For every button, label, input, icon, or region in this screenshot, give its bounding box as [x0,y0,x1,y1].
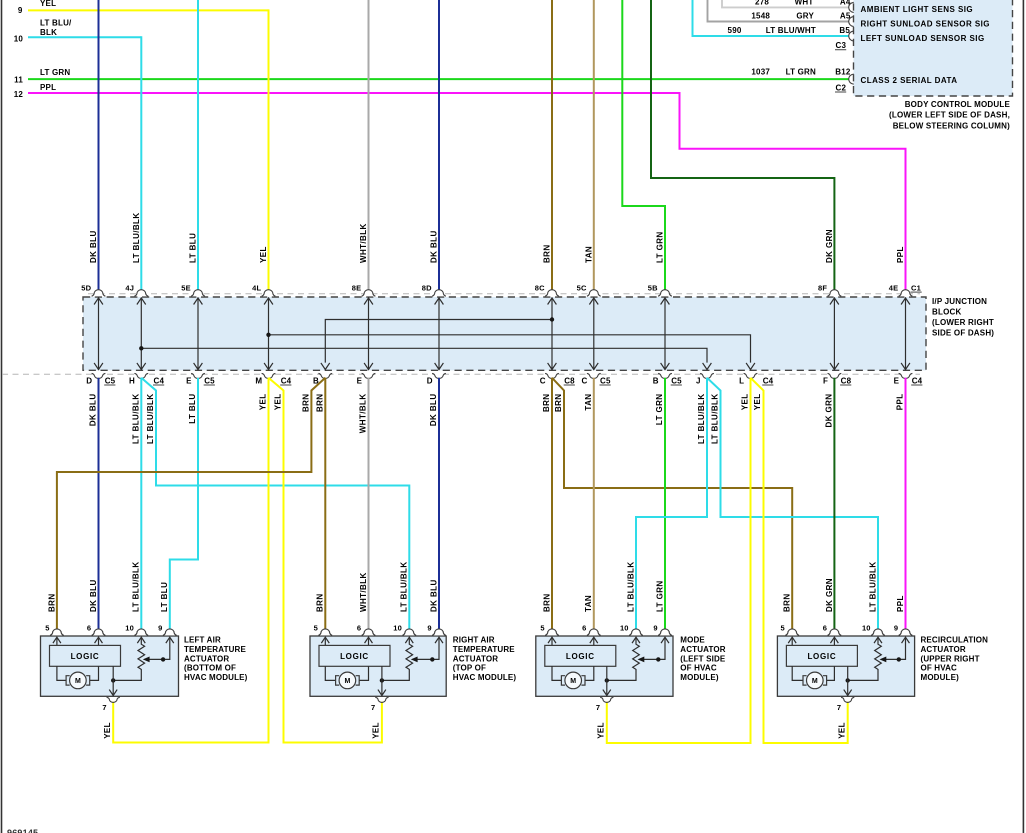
junction top pin 8C [545,290,559,297]
actuator U3 pin 9 [658,629,672,636]
actuator U3 pin 6 lead arrow [593,638,595,645]
svg-text:TAN: TAN [584,394,593,411]
wire 10 vertical LT BLU/BLK to 4J [140,36,142,291]
wire WHT to BCM A4 [722,0,849,7]
svg-text:C8: C8 [564,376,575,385]
junction top pin 8E [362,290,376,296]
svg-text:5E: 5E [181,283,191,292]
svg-text:LEFT AIR: LEFT AIR [184,636,221,645]
svg-text:TAN: TAN [584,595,593,612]
svg-text:5: 5 [45,624,49,633]
actuator U3 pin 7 [600,697,613,702]
svg-text:I/P JUNCTION: I/P JUNCTION [932,297,987,306]
actuator U2 motor M [339,672,356,689]
junction top pin 8F [828,290,842,297]
svg-text:C4: C4 [763,376,774,385]
wire WHT/BLK column 8E [368,0,370,291]
svg-text:LEFT SUNLOAD SENSOR SIG: LEFT SUNLOAD SENSOR SIG [861,34,985,43]
body control module box [854,0,1013,96]
svg-text:DK GRN: DK GRN [825,229,834,263]
svg-text:7: 7 [837,703,841,712]
svg-text:E: E [894,376,900,385]
svg-text:5B: 5B [648,283,658,292]
actuator U4 potentiometer [848,638,882,680]
svg-text:BRN: BRN [316,593,325,612]
junction bottom pin D [432,373,446,378]
svg-text:LT GRN: LT GRN [655,580,664,612]
svg-text:DK GRN: DK GRN [825,394,834,428]
svg-text:BRN: BRN [554,394,563,413]
svg-text:12: 12 [14,90,24,99]
svg-text:PPL: PPL [896,595,905,612]
svg-text:5: 5 [314,624,318,633]
svg-text:(LEFT SIDE: (LEFT SIDE [680,654,726,663]
svg-text:5C: 5C [577,283,587,292]
junction pass-through wire x=268.5 [268,298,270,370]
actuator U2 LOGIC box [319,645,390,666]
svg-text:C5: C5 [204,376,215,385]
actuator U1 motor M [70,672,87,689]
svg-text:6: 6 [87,624,91,633]
wire WHT/BLK E to act2 pin6 [368,378,370,631]
svg-text:LOGIC: LOGIC [71,652,100,661]
svg-text:C5: C5 [600,376,611,385]
junction top pin 4L [262,290,276,296]
svg-text:WHT/BLK: WHT/BLK [359,223,368,263]
junction top pin 4J [134,290,148,297]
BCM pin arc B12 [849,74,854,84]
wire 10 LT BLU/BLK from left edge [28,36,141,38]
svg-text:4L: 4L [252,283,261,292]
svg-text:8E: 8E [352,283,362,292]
svg-text:TEMPERATURE: TEMPERATURE [184,645,246,654]
svg-text:YEL: YEL [274,394,283,411]
actuator U3 wiper node dot [656,657,660,661]
junction top pin 5E [191,290,205,296]
actuator U2 common node dot [380,678,384,682]
junction pass-through wire x=98.5 [98,298,100,370]
junction bottom pin D C5 [92,373,106,378]
svg-text:PPL: PPL [896,394,905,411]
junction top pin 5D [92,290,106,297]
actuator U3 pin 5 [545,629,559,636]
svg-text:YEL: YEL [40,0,56,8]
wire DK GRN F to act4 pin6 [833,378,835,631]
svg-text:B: B [653,376,659,385]
actuator U1 motor leads [57,666,66,680]
svg-text:(LOWER LEFT SIDE OF DASH,: (LOWER LEFT SIDE OF DASH, [889,111,1010,120]
svg-text:C: C [540,376,546,385]
actuator U1 pin 10 [134,629,148,636]
svg-text:LT BLU/BLK: LT BLU/BLK [711,394,720,445]
svg-text:TEMPERATURE: TEMPERATURE [453,645,515,654]
svg-text:DK BLU: DK BLU [430,230,439,263]
svg-text:HVAC MODULE): HVAC MODULE) [453,673,517,682]
actuator U2 pin 5 [318,629,332,636]
svg-text:RIGHT SUNLOAD SENSOR SIG: RIGHT SUNLOAD SENSOR SIG [861,19,990,28]
junction node dot on 4J column [139,346,143,350]
svg-text:WHT: WHT [795,0,814,7]
svg-text:HVAC MODULE): HVAC MODULE) [184,673,248,682]
svg-text:CLASS 2 SERIAL DATA: CLASS 2 SERIAL DATA [861,76,958,85]
svg-text:YEL: YEL [838,722,847,739]
svg-text:ACTUATOR: ACTUATOR [453,654,498,663]
actuator U1 LOGIC box [50,645,121,666]
svg-text:LOGIC: LOGIC [807,652,836,661]
svg-text:LT GRN: LT GRN [655,394,664,426]
svg-text:M: M [570,678,576,685]
svg-text:OF HVAC: OF HVAC [680,664,717,673]
actuator U2 pin 7 lead [381,666,383,694]
junction bottom pin M C4 [262,373,276,378]
BCM pin arc A4 [849,2,854,12]
svg-text:LT GRN: LT GRN [40,68,70,77]
junction bus 4L to pin L [269,335,751,363]
junction pass-through wire x=368.5 [368,298,370,370]
wire GRY to BCM A5 [708,0,850,22]
svg-text:LT GRN: LT GRN [656,231,665,263]
svg-text:5: 5 [540,624,544,633]
actuator U2 box [310,636,446,696]
junction bottom pin J [700,373,714,378]
actuator U3 motor M [565,672,582,689]
BCM pin arc A5 [849,16,854,26]
actuator U2 pin 7 [375,697,388,702]
svg-text:(UPPER RIGHT: (UPPER RIGHT [921,654,980,663]
actuator U3 pin 7 lead [606,666,608,694]
junction top connector strip [88,293,920,295]
svg-text:8F: 8F [818,283,827,292]
svg-text:BRN: BRN [543,244,552,263]
svg-text:RECIRCULATION: RECIRCULATION [921,636,989,645]
actuator U3 box [536,636,673,696]
actuator U2 wiper node dot [430,657,434,661]
BCM pin arc B5 [849,31,854,41]
actuator U4 pin 7 lead [847,666,849,694]
wire BRN B split to act1 pin5 [57,378,325,631]
actuator U1 pin 6 lead arrow [98,638,100,645]
junction node dot on 4L column [266,333,270,337]
svg-text:DK BLU: DK BLU [429,579,438,612]
svg-text:SIDE OF DASH): SIDE OF DASH) [932,328,994,337]
svg-text:D: D [86,376,92,385]
junction pass-through wire x=198 [197,298,199,370]
svg-text:YEL: YEL [372,722,381,739]
svg-text:MODULE): MODULE) [680,673,719,682]
wire LT BLU/BLK J split to act4 pin10 [707,378,878,631]
svg-text:BRN: BRN [47,593,56,612]
I/P junction block box [83,297,926,370]
svg-text:7: 7 [371,703,375,712]
svg-text:M: M [344,678,350,685]
svg-text:PPL: PPL [40,83,56,92]
svg-text:LT BLU/BLK: LT BLU/BLK [132,394,141,445]
svg-text:BRN: BRN [302,394,311,413]
svg-text:M: M [255,376,262,385]
svg-text:C4: C4 [281,376,292,385]
junction bus 4J to pin J [141,348,707,362]
junction bottom pin F C8 [828,373,842,378]
wire LT BLU/BLK H to act1 pin10 [140,378,142,631]
actuator U1 pin 5 [50,629,64,635]
svg-text:H: H [129,376,135,385]
wire 9 YEL from left edge [28,9,269,11]
wire PPL E to act4 pin9 [905,378,907,631]
svg-text:LT BLU/BLK: LT BLU/BLK [400,561,409,612]
actuator U4 LOGIC box [786,645,857,666]
wire LT BLU E to act1 pin9 [170,378,198,631]
svg-text:DK GRN: DK GRN [825,578,834,612]
actuator U1 wiper node dot [161,657,165,661]
svg-text:9: 9 [158,624,162,633]
junction bus 8C to pin B [325,320,552,363]
actuator U3 pin 10 [629,629,643,636]
junction top pin 4E [899,290,913,297]
svg-text:M: M [75,678,81,685]
junction node dot on 8C column [550,317,554,321]
svg-text:LOGIC: LOGIC [566,652,595,661]
svg-text:4J: 4J [125,283,134,292]
svg-text:278: 278 [755,0,769,7]
svg-text:7: 7 [596,703,600,712]
actuator U4 common node dot [846,678,850,682]
svg-text:BRN: BRN [542,394,551,413]
junction bottom pin E C5 [191,373,205,378]
svg-text:C2: C2 [836,83,847,92]
junction bottom pin B C5 [658,373,672,378]
junction top pin 5C [587,290,601,297]
wire DK BLU column 8D [438,0,440,291]
svg-text:J: J [696,376,701,385]
actuator U1 potentiometer [113,638,144,680]
junction bottom pin C C5 [587,373,601,378]
actuator U4 box [777,636,914,696]
svg-text:(TOP OF: (TOP OF [453,664,486,673]
svg-text:6: 6 [357,624,361,633]
actuator U3 potentiometer [607,638,640,680]
actuator U2 pin 5 lead arrow [324,638,326,645]
svg-text:10: 10 [862,624,871,633]
svg-text:WHT/BLK: WHT/BLK [359,572,368,612]
actuator U3 pin 6 [587,629,601,636]
svg-text:BELOW STEERING COLUMN): BELOW STEERING COLUMN) [893,121,1010,130]
wire 11 LT GRN class 2 serial data to BCM B12 [28,78,849,80]
svg-text:4E: 4E [889,283,899,292]
svg-text:LT BLU/BLK: LT BLU/BLK [132,212,141,263]
svg-text:PPL: PPL [896,246,905,263]
junction pass-through wire x=665 [664,298,666,370]
svg-text:6: 6 [582,624,586,633]
actuator U2 pin 6 [362,629,376,635]
svg-text:C3: C3 [836,41,847,50]
svg-text:LT BLU/BLK: LT BLU/BLK [626,561,635,612]
actuator U3 wiper from pin 9 [644,638,666,659]
wire TAN column 5C [593,0,595,291]
svg-text:LOGIC: LOGIC [340,652,369,661]
junction pass-through wire x=593.8 [593,298,595,370]
svg-text:LT BLU/WHT: LT BLU/WHT [766,26,816,35]
actuator U3 common node dot [605,678,609,682]
page right border [1022,0,1024,833]
svg-text:C: C [582,376,588,385]
svg-text:BLOCK: BLOCK [932,307,961,316]
svg-text:LT BLU/BLK: LT BLU/BLK [146,394,155,445]
wire YEL L to act3 pin7 [607,378,751,743]
svg-text:(BOTTOM OF: (BOTTOM OF [184,664,236,673]
svg-text:YEL: YEL [259,394,268,411]
junction top pin 8D [432,290,446,296]
junction bottom pin L C4 [744,373,758,378]
actuator U2 motor leads [325,666,335,680]
svg-text:1037: 1037 [751,68,770,77]
actuator U4 wiper node dot [897,657,901,661]
actuator U3 LOGIC box [545,645,616,666]
svg-text:MODE: MODE [680,636,705,645]
wire DK BLU D to act1 pin6 [98,378,100,631]
svg-text:5: 5 [781,624,785,633]
actuator U3 pin 5 lead arrow [551,638,553,645]
svg-text:C8: C8 [841,376,852,385]
svg-text:7: 7 [102,703,106,712]
actuator U1 common node dot [111,678,115,682]
svg-text:YEL: YEL [753,394,762,411]
wire DK GRN elbow to 8F [651,0,834,291]
wire DK BLU column 5D [98,0,100,291]
wire 12 PPL from left edge [28,93,906,291]
svg-text:6: 6 [823,624,827,633]
svg-text:LT GRN: LT GRN [786,68,816,77]
junction bottom pin E [362,373,376,378]
svg-text:B12: B12 [835,68,851,77]
svg-text:1548: 1548 [751,12,770,21]
wire BRN column 8C [551,0,553,291]
svg-text:D: D [427,376,433,385]
svg-text:E: E [186,376,192,385]
svg-text:9: 9 [18,6,23,15]
svg-text:9: 9 [427,624,431,633]
svg-text:AMBIENT LIGHT SENS SIG: AMBIENT LIGHT SENS SIG [861,5,974,14]
svg-text:M: M [812,678,818,685]
junction pass-through wire x=439 [438,298,440,370]
actuator U1 pin 7 lead [112,666,114,694]
junction bottom pin E C4 [899,373,913,378]
actuator U4 pin 6 lead arrow [833,638,835,645]
wire TAN C to act3 pin6 [593,378,595,631]
wire BRN C to act3 pin5 [551,378,553,631]
wire LT GRN B to act3 pin9 [664,378,666,631]
actuator U4 pin 5 [785,629,799,636]
wire LT GRN elbow to 5B [622,0,665,291]
svg-text:LT BLU/BLK: LT BLU/BLK [697,394,706,445]
junction bottom pin C C8 [545,373,559,378]
svg-text:E: E [357,376,363,385]
junction pass-through wire x=141.3 [140,298,142,370]
svg-text:10: 10 [620,624,629,633]
page left border [1,0,3,833]
wire LT BLU column 5E [197,0,199,291]
svg-text:10: 10 [14,35,24,44]
svg-text:ACTUATOR: ACTUATOR [680,645,725,654]
wire BRN C split to act4 pin5 [552,378,792,631]
svg-text:LT BLU: LT BLU [189,233,198,263]
wire BRN B to act2 pin5 [324,378,326,631]
svg-text:L: L [739,376,744,385]
wire LT BLU/WHT to BCM B5 [693,0,850,36]
wire YEL L split to act4 pin7 [751,378,848,743]
svg-text:OF HVAC: OF HVAC [921,664,958,673]
svg-text:DK BLU: DK BLU [429,394,438,427]
svg-text:9: 9 [894,624,898,633]
svg-text:YEL: YEL [103,722,112,739]
svg-text:10: 10 [125,624,134,633]
wire DK BLU D to act2 pin9 [438,378,440,631]
svg-text:TAN: TAN [585,246,594,263]
actuator U4 pin 10 [871,629,885,636]
svg-text:10: 10 [393,624,402,633]
wire LT BLU/BLK J to act3 pin10 [636,378,707,631]
junction pass-through wire x=905.5 [905,298,907,370]
actuator U1 pin 6 [92,629,106,636]
svg-text:8D: 8D [422,283,432,292]
junction bottom connector strip [2,373,920,375]
actuator U1 pin 9 [163,629,177,636]
actuator U1 box [41,636,179,696]
actuator U4 motor M [807,672,824,689]
junction pass-through wire x=834.4 [833,298,835,370]
actuator U2 pin 6 lead arrow [368,638,370,645]
wire YEL M to act1 pin7 [113,378,268,743]
actuator U4 pin 6 [828,629,842,636]
svg-text:9: 9 [653,624,657,633]
svg-text:LT BLU: LT BLU [188,394,197,424]
svg-text:C4: C4 [154,376,165,385]
svg-text:11: 11 [14,76,23,85]
svg-text:GRY: GRY [796,12,814,21]
svg-text:ACTUATOR: ACTUATOR [184,654,229,663]
svg-text:YEL: YEL [741,394,750,411]
svg-text:969145: 969145 [7,828,38,833]
svg-text:YEL: YEL [259,246,268,263]
actuator U1 wiper from pin 9 [149,638,170,659]
svg-text:C1: C1 [911,283,921,292]
actuator U4 pin 9 [899,629,913,636]
junction bottom pin H C4 [134,373,148,378]
actuator U4 pin 7 [841,697,854,702]
svg-text:DK BLU: DK BLU [89,579,98,612]
svg-text:C4: C4 [912,376,923,385]
svg-text:RIGHT AIR: RIGHT AIR [453,636,495,645]
svg-text:YEL: YEL [597,722,606,739]
svg-text:LT BLU/BLK: LT BLU/BLK [868,561,877,612]
actuator U2 pin 10 [402,629,416,636]
wire 9 vertical YEL to 4L [268,9,270,291]
junction pass-through wire x=552 [551,298,553,370]
svg-text:BODY CONTROL MODULE: BODY CONTROL MODULE [905,100,1011,109]
actuator U4 wiper from pin 9 [886,638,906,659]
svg-text:LT BLU/BLK: LT BLU/BLK [132,561,141,612]
junction top pin 5B [658,290,672,297]
svg-text:DK BLU: DK BLU [89,394,98,427]
svg-text:BLK: BLK [40,28,57,37]
svg-text:LT BLU/: LT BLU/ [40,19,72,28]
svg-text:5D: 5D [81,283,91,292]
svg-text:8C: 8C [535,283,545,292]
actuator U2 pin 9 [432,629,446,635]
svg-text:590: 590 [728,26,742,35]
svg-text:WHT/BLK: WHT/BLK [359,394,368,434]
svg-text:F: F [823,376,828,385]
svg-text:C5: C5 [105,376,116,385]
